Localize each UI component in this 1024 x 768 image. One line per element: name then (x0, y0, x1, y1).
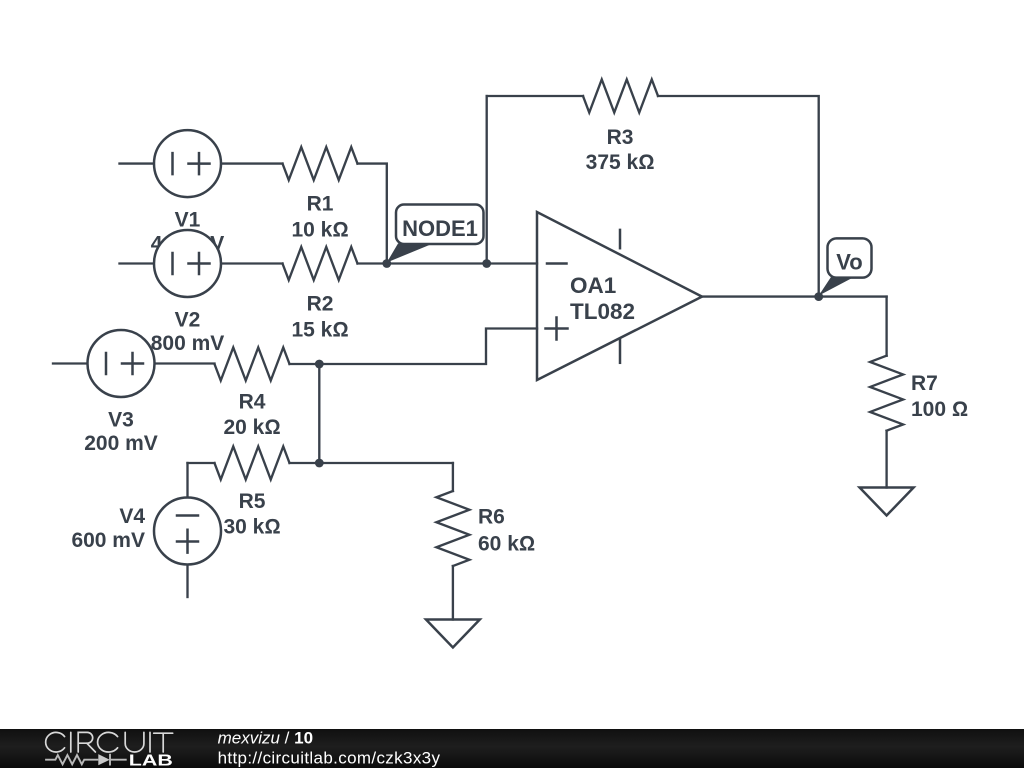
voltage source V2 (120, 230, 283, 355)
resistor R4 (215, 329, 538, 440)
wire (188, 462, 215, 464)
svg-text:20 kΩ: 20 kΩ (223, 416, 280, 439)
wire (120, 262, 155, 264)
CircuitLab logo text CIRCUIT (hand-drawn thin geometric letters) (46, 732, 173, 752)
svg-text:10 kΩ: 10 kΩ (291, 219, 348, 242)
voltage source V3 (53, 330, 215, 455)
svg-text:R2: R2 (307, 293, 334, 316)
resistor R3 (487, 80, 819, 297)
node Vo junction (814, 292, 823, 301)
svg-text:R1: R1 (307, 193, 334, 216)
node Vo flag (819, 238, 872, 295)
wire (221, 262, 283, 264)
ground under R6 (426, 620, 480, 648)
wire (53, 362, 88, 364)
svg-text:R6: R6 (478, 506, 505, 529)
svg-text:V2: V2 (175, 309, 201, 332)
svg-text:TL082: TL082 (570, 299, 635, 324)
node NODE1 flag (387, 205, 484, 263)
wire (155, 362, 215, 364)
wire (658, 96, 819, 297)
svg-text:LAB: LAB (129, 752, 173, 768)
resistor R6 (436, 463, 535, 620)
voltage source V1 (120, 130, 283, 255)
node junction R4 output (315, 360, 324, 369)
svg-text:R7: R7 (911, 372, 938, 395)
wire (120, 162, 155, 164)
node NODE1 junction (382, 259, 391, 268)
wire (290, 462, 453, 464)
wire feedback left vertical (486, 96, 488, 264)
op-amp OA1 (537, 212, 702, 380)
svg-text:R4: R4 (239, 391, 266, 414)
wire (186, 463, 188, 498)
wire (358, 164, 387, 264)
svg-text:15 kΩ: 15 kΩ (291, 318, 348, 341)
footer bar (0, 729, 1024, 768)
node junction feedback/inverting input (482, 259, 491, 268)
resistor R5 (188, 447, 453, 539)
wire (452, 566, 454, 620)
resistor R2 (283, 247, 538, 341)
node junction R5 row (315, 459, 324, 468)
wire (885, 297, 887, 356)
wire output row (702, 295, 887, 297)
svg-text:V3: V3 (108, 409, 134, 432)
svg-text:100 Ω: 100 Ω (911, 398, 968, 421)
resistor R7 (870, 297, 968, 488)
node junction dots (315, 259, 823, 467)
svg-text:375 kΩ: 375 kΩ (586, 151, 655, 174)
voltage source V4 (71, 463, 221, 597)
wire (221, 162, 283, 164)
wire (290, 329, 538, 365)
svg-text:60 kΩ: 60 kΩ (478, 533, 535, 556)
wire (487, 95, 583, 97)
wire (885, 431, 887, 488)
svg-text:R5: R5 (239, 490, 266, 513)
svg-text:NODE1: NODE1 (402, 216, 478, 241)
svg-text:mexvizu / 10: mexvizu / 10 (218, 729, 313, 748)
svg-text:30 kΩ: 30 kΩ (223, 516, 280, 539)
svg-text:http://circuitlab.com/czk3x3y: http://circuitlab.com/czk3x3y (218, 748, 441, 767)
svg-text:Vo: Vo (836, 250, 862, 275)
svg-text:600 mV: 600 mV (71, 529, 145, 552)
svg-text:200 mV: 200 mV (84, 432, 158, 455)
svg-text:800 mV: 800 mV (151, 332, 225, 355)
resistor R1 (283, 147, 387, 263)
CircuitLab logo resistor-diode symbol (45, 754, 127, 766)
wire node to R5 row (318, 364, 320, 463)
ground under R7 (860, 488, 914, 516)
svg-text:R3: R3 (607, 126, 634, 149)
svg-text:V1: V1 (175, 209, 201, 232)
svg-text:V4: V4 (119, 505, 145, 528)
svg-text:OA1: OA1 (570, 273, 616, 298)
wire (452, 463, 454, 491)
wire (358, 262, 538, 264)
wire (186, 565, 188, 598)
